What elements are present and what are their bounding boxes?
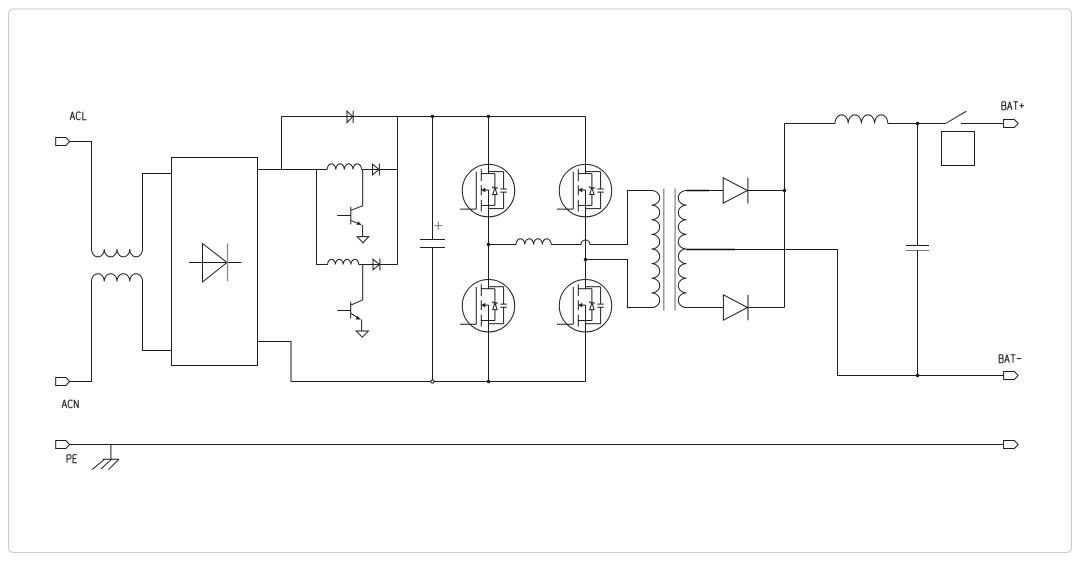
node dot left leg bottom — [487, 380, 490, 383]
terminal PE right — [1004, 441, 1019, 449]
node dot output cap bottom — [916, 374, 919, 377]
node A riser — [281, 117, 283, 170]
wire secondary top lead — [687, 190, 710, 192]
wire coil1 to bus — [362, 169, 398, 171]
node dot C1 bottom — [431, 380, 434, 383]
wire Q6 source to bottom rail — [585, 332, 587, 382]
wire top rail — [282, 116, 586, 118]
inductor L4 (driver coil 1) — [327, 164, 361, 170]
diode D5 — [723, 295, 747, 320]
wire choke lower to bridge input — [143, 282, 172, 351]
node dot left leg top — [487, 115, 490, 118]
ground G1 — [357, 237, 369, 243]
label PE — [67, 455, 71, 463]
label ACN — [62, 400, 67, 408]
capacitor C1 — [432, 117, 434, 240]
node dot output cap top — [916, 122, 919, 125]
node B riser — [317, 170, 328, 265]
diode D4 — [723, 178, 747, 203]
ground G2 — [356, 331, 368, 337]
wire Q5 source to bottom rail — [488, 332, 490, 382]
terminal ACN — [56, 378, 70, 386]
transformer T1 primary — [652, 191, 660, 308]
MOSFET Q4 — [557, 164, 612, 216]
diode D1 — [347, 111, 353, 123]
capacitor C2 — [917, 124, 919, 246]
wire switch to BAT+ — [961, 123, 1004, 125]
label BAT- — [999, 355, 1003, 363]
node dot C1 top — [431, 115, 434, 118]
bridge diode symbol — [189, 262, 242, 264]
wire driver right bus — [397, 117, 399, 265]
wire center tap bold start — [687, 249, 736, 251]
inductor L5 (driver coil 2) — [328, 259, 359, 264]
wire Q6 drain — [585, 260, 587, 280]
node dot rectifier join — [783, 189, 786, 192]
MOSFET Q3 — [460, 164, 515, 216]
label ACL — [70, 112, 75, 120]
inductor L3 — [835, 115, 888, 124]
wire secondary bottom lead — [687, 307, 724, 309]
inductor L2 — [516, 239, 551, 245]
diode D2 — [373, 164, 380, 175]
wire Q4 source to mid node — [585, 217, 587, 260]
node dot mid-right — [584, 258, 587, 261]
transistor Q1 — [351, 170, 363, 211]
wire Q5 drain — [488, 245, 490, 280]
transistor Q2 — [351, 265, 363, 306]
inductor L1b (common-mode choke lower winding) — [92, 274, 143, 282]
diode D3 — [373, 259, 380, 270]
terminal BAT+ — [1004, 120, 1019, 128]
wire bridge bottom output — [258, 342, 292, 382]
wire mid-left to resonant inductor — [489, 244, 517, 246]
MOSFET Q6 — [557, 280, 612, 332]
terminal PE — [56, 441, 70, 449]
relay box K1 — [942, 132, 975, 166]
label BAT+ — [1002, 102, 1006, 110]
wire L2 to transformer with hop — [551, 191, 651, 245]
wire Q3 source to mid node — [488, 217, 490, 245]
wire mid-right to transformer — [586, 260, 652, 308]
wire choke upper to bridge input — [143, 174, 172, 250]
wire PE rail — [70, 444, 1004, 446]
wire D4 to join — [748, 190, 785, 192]
terminal ACL — [56, 138, 70, 146]
earth ground on PE — [110, 445, 112, 460]
wire right leg drain Q4 — [585, 117, 587, 165]
terminal BAT- — [1004, 372, 1019, 380]
wire ACL to choke — [70, 142, 92, 250]
inductor L1a (common-mode choke upper winding) — [92, 249, 143, 257]
wire bridge top output — [258, 169, 328, 171]
transformer T1 core — [664, 189, 675, 311]
wire bottom rail — [291, 381, 586, 383]
wire L3 to switch — [888, 123, 946, 125]
MOSFET Q5 — [460, 280, 515, 332]
wire secondary center tap to BAT- rail — [687, 250, 1004, 376]
wire coil2 to bus — [359, 264, 398, 266]
switch SW1 blade — [946, 111, 967, 123]
bridge rectifier BR1 — [172, 158, 258, 366]
node dot mid-left — [487, 243, 490, 246]
transformer T1 secondary — [678, 191, 686, 308]
wire left leg drain Q3 — [488, 117, 490, 165]
wire ACN to choke — [70, 282, 92, 382]
wire D5 to join riser — [748, 124, 785, 308]
wire output rail left — [785, 123, 836, 125]
